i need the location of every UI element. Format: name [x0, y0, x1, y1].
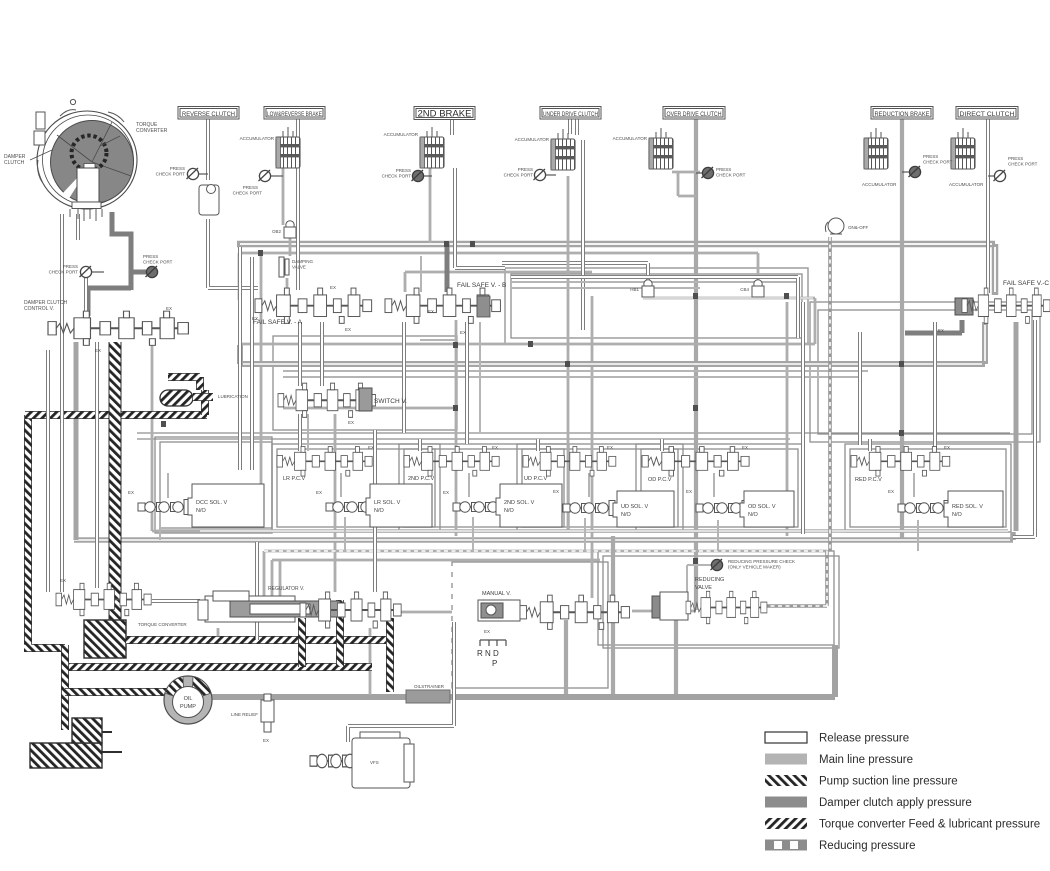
press check port P7 filled	[696, 167, 746, 179]
svg-text:R N D: R N D	[477, 649, 499, 658]
wire reduction brake line x902	[900, 119, 904, 540]
header REDUCTION BRAKE	[871, 107, 933, 120]
svg-text:UD SOL. V: UD SOL. V	[621, 504, 649, 510]
hatched oil pan	[30, 718, 122, 768]
valve FAIL SAFE V-A	[253, 288, 372, 326]
wire HB1-CB4 line y296	[592, 296, 815, 598]
svg-text:OB2: OB2	[272, 229, 282, 234]
enclosure box LR pair	[272, 444, 440, 532]
legend pump suction	[765, 775, 958, 788]
header DIRECT CLUTCH	[956, 107, 1018, 120]
enclosure box RED pair	[845, 444, 1011, 532]
wire white reverse clutch line	[208, 119, 258, 288]
wire bus y364	[240, 322, 985, 364]
label oilstrainer	[414, 684, 445, 689]
enclosure box manual valve region	[452, 562, 608, 688]
hatched suction x65	[61, 645, 69, 730]
svg-text:EX: EX	[348, 420, 354, 425]
svg-text:EX: EX	[742, 445, 748, 450]
legend torque converter feed	[765, 818, 1040, 831]
wire white direct clutch line	[986, 119, 990, 293]
svg-text:2ND P.C.V: 2ND P.C.V	[408, 476, 435, 482]
enclosure box right mid region	[810, 302, 1040, 442]
header 2ND BRAKE	[414, 107, 475, 120]
svg-text:EX: EX	[553, 489, 559, 494]
svg-text:MANUAL V.: MANUAL V.	[482, 591, 511, 597]
svg-text:REDUCING PRESSURE CHECK: REDUCING PRESSURE CHECK	[728, 559, 795, 564]
svg-text:OVER DRIVE CLUTCH: OVER DRIVE CLUTCH	[667, 111, 722, 118]
press check port P6	[504, 167, 556, 181]
valve OD PCV	[642, 447, 749, 483]
wire fail-safe B feeders	[405, 241, 592, 292]
svg-text:CHECK PORT: CHECK PORT	[923, 160, 953, 165]
wire gray below fail-safe B	[420, 322, 480, 433]
wire reducing bus y552	[264, 551, 827, 600]
check ball CB4	[740, 280, 764, 297]
svg-text:2ND BRAKE: 2ND BRAKE	[418, 109, 472, 120]
check ball HB1	[630, 280, 654, 297]
svg-text:EX: EX	[368, 445, 374, 450]
reverse clutch check loop	[199, 185, 219, 216]
feed hatched wide pipe x115	[109, 342, 122, 622]
accumulator OD	[613, 128, 673, 169]
svg-text:EX: EX	[252, 316, 258, 321]
svg-text:ACCUMULATOR: ACCUMULATOR	[240, 136, 275, 141]
svg-text:ACCUMULATOR: ACCUMULATOR	[949, 182, 984, 187]
svg-text:EX: EX	[607, 445, 613, 450]
svg-text:PRESS: PRESS	[1008, 156, 1023, 161]
svg-text:EX: EX	[345, 327, 351, 332]
svg-text:EX: EX	[128, 490, 134, 495]
svg-text:PRESS: PRESS	[170, 166, 185, 171]
press check port P4	[233, 170, 283, 196]
label damper control valve name	[24, 300, 67, 312]
svg-text:REDUCTION BRAKE: REDUCTION BRAKE	[875, 111, 931, 118]
svg-text:EX: EX	[95, 348, 101, 353]
svg-text:LOW&REVERSE BRAKE: LOW&REVERSE BRAKE	[267, 111, 322, 118]
svg-text:DAMPING: DAMPING	[292, 259, 314, 264]
hatched sump block	[84, 620, 126, 658]
wire manual valve bottom drop x566	[564, 620, 568, 695]
accumulator DIRECT	[949, 128, 984, 187]
svg-text:Torque converter Feed & lubric: Torque converter Feed & lubricant pressu…	[819, 819, 1040, 831]
svg-text:DCC SOL. V: DCC SOL. V	[196, 500, 228, 506]
check ball OB2	[272, 221, 296, 238]
wire UD clutch line x568	[567, 176, 570, 530]
wire DCC branch x261	[260, 253, 263, 484]
svg-text:EX: EX	[263, 738, 269, 743]
wire white UD pipes	[577, 119, 583, 330]
suction hatched pipe left vertical x28	[24, 415, 65, 648]
svg-text:OD P.C.V: OD P.C.V	[648, 477, 672, 483]
wire manual valve right drop x613	[611, 536, 615, 695]
solenoid OD	[686, 489, 794, 527]
hatched bus y640	[126, 636, 390, 644]
wire manual valve output	[632, 610, 696, 613]
EX labels scattered	[95, 285, 950, 450]
svg-text:FAIL SAFE V. - B: FAIL SAFE V. - B	[457, 282, 506, 289]
wire main line bus y244	[237, 244, 995, 295]
svg-text:EX: EX	[492, 445, 498, 450]
svg-text:HB1: HB1	[630, 287, 639, 292]
solenoid VFS	[310, 732, 414, 788]
valve RED PCV	[851, 447, 950, 483]
svg-text:EX: EX	[60, 578, 66, 583]
enclosure box switch region	[273, 336, 457, 430]
valve LR PCV	[277, 447, 372, 482]
wire switch valve drop x335	[334, 414, 337, 592]
svg-text:CONTROL V.: CONTROL V.	[24, 306, 54, 312]
hatched suction to pump y692	[65, 688, 167, 696]
valve FAIL SAFE V-C	[955, 280, 1050, 323]
label damper clutch	[4, 150, 52, 166]
svg-text:Release pressure: Release pressure	[819, 733, 909, 745]
valve SWITCH V	[278, 383, 407, 417]
wire y345 branch	[242, 341, 815, 347]
wire white left column x62	[48, 214, 97, 592]
svg-text:Main line pressure: Main line pressure	[819, 754, 913, 766]
wire white pipes below fail-safe B	[404, 277, 798, 444]
solenoid DCC	[128, 484, 264, 527]
wire switch valve line y408	[283, 407, 456, 410]
svg-text:RED SOL. V: RED SOL. V	[952, 504, 983, 510]
svg-text:CHECK PORT: CHECK PORT	[382, 174, 412, 179]
svg-text:LINE RELIEF: LINE RELIEF	[231, 712, 258, 717]
svg-text:VALVE: VALVE	[695, 585, 712, 591]
hatched bus y667	[65, 663, 372, 671]
svg-text:CHECK PORT: CHECK PORT	[233, 191, 263, 196]
solenoid RED	[888, 489, 1003, 527]
solenoid LR	[316, 484, 432, 527]
wire white 2nd brake pipes	[452, 119, 505, 268]
svg-text:EX: EX	[443, 490, 449, 495]
oil strainer on bus	[406, 690, 450, 703]
accumulator UD	[515, 129, 575, 170]
wire white tc-regulator link	[152, 542, 257, 640]
svg-text:REDUCING: REDUCING	[695, 577, 724, 583]
valve manual	[478, 591, 629, 634]
wire bus y536	[65, 532, 1013, 540]
press check port P3	[156, 166, 208, 180]
reducing pressure check port	[711, 559, 796, 571]
svg-text:EX: EX	[166, 306, 172, 311]
svg-text:CONVERTER: CONVERTER	[136, 128, 168, 134]
svg-text:CHECK PORT: CHECK PORT	[504, 173, 534, 178]
lubricant hatched pipe x205	[201, 390, 209, 415]
svg-text:ON&-OFF: ON&-OFF	[848, 225, 868, 230]
svg-text:EX: EX	[938, 328, 944, 333]
svg-text:VFS: VFS	[370, 760, 379, 765]
svg-text:PUMP: PUMP	[180, 704, 196, 710]
svg-text:UNDER DRIVE CLUTCH: UNDER DRIVE CLUTCH	[543, 111, 598, 118]
wire main line bus y253	[239, 253, 758, 300]
wire OD accumulator loop	[672, 172, 700, 196]
label torque converter small	[138, 622, 187, 627]
svg-text:N/O: N/O	[196, 508, 207, 514]
svg-text:ACCUMULATOR: ACCUMULATOR	[515, 137, 550, 142]
wire regulator feed y612	[400, 611, 452, 614]
svg-text:PRESS: PRESS	[243, 185, 258, 190]
svg-text:CHECK PORT: CHECK PORT	[156, 172, 186, 177]
svg-text:ACCUMULATOR: ACCUMULATOR	[862, 182, 897, 187]
svg-text:EX: EX	[316, 490, 322, 495]
wire enclosure-bottom gray rail y531	[160, 529, 1008, 533]
wire left vertical x105	[74, 342, 79, 540]
svg-text:LR SOL. V: LR SOL. V	[374, 500, 401, 506]
svg-text:ACCUMULATOR: ACCUMULATOR	[384, 132, 419, 137]
svg-text:N/O: N/O	[504, 508, 515, 514]
accumulator LR	[240, 127, 300, 168]
press check port P8 filled	[902, 154, 953, 178]
svg-text:UD P.C.V: UD P.C.V	[524, 476, 547, 482]
valve 2ND PCV	[404, 447, 499, 482]
wire white manual exhaust loop	[348, 622, 454, 742]
svg-text:SWITCH V.: SWITCH V.	[374, 398, 407, 405]
wire dark damper apply from converter	[88, 212, 146, 316]
accumulator 2ND	[384, 127, 444, 168]
wire white pipes x240 x252	[240, 247, 252, 470]
enclosure box UD pair	[517, 444, 683, 532]
wire LR PCV stub	[307, 414, 309, 451]
header LOW&REVERSE BRAKE	[264, 107, 325, 120]
legend damper clutch apply	[765, 797, 972, 810]
svg-text:PRESS: PRESS	[716, 167, 731, 172]
svg-text:RED P.C.V: RED P.C.V	[855, 477, 882, 483]
svg-text:DIRECT CLUTCH: DIRECT CLUTCH	[960, 111, 1015, 118]
valve torque converter control	[56, 578, 151, 616]
wire reducing valve drop x676	[674, 614, 678, 695]
hatched regulator drains	[302, 600, 390, 692]
damping valve	[279, 257, 314, 277]
wire dark fail-safe C link	[905, 320, 962, 333]
valve UD PCV	[523, 447, 616, 482]
svg-text:PRESS: PRESS	[396, 168, 411, 173]
svg-text:N/O: N/O	[952, 512, 963, 518]
wire 2nd brake accumulator feed	[429, 168, 432, 243]
svg-text:CHECK PORT: CHECK PORT	[716, 173, 746, 178]
header UNDER DRIVE CLUTCH	[540, 107, 601, 120]
legend reducing pressure	[765, 840, 916, 853]
svg-text:FAIL SAFE V.-C: FAIL SAFE V.-C	[1003, 280, 1049, 287]
wire white x375	[373, 430, 377, 592]
header OVER DRIVE CLUTCH	[663, 107, 725, 120]
svg-text:PRESS: PRESS	[923, 154, 938, 159]
wire pcv top stubs	[420, 439, 870, 451]
svg-text:TORQUE CONVERTER: TORQUE CONVERTER	[138, 622, 187, 627]
svg-text:PRESS: PRESS	[63, 264, 78, 269]
lubrication hatched oval	[160, 377, 213, 406]
svg-text:N/O: N/O	[748, 512, 759, 518]
on-off solenoid	[825, 218, 868, 234]
torque converter assembly	[34, 99, 137, 221]
wire reducing check link	[687, 565, 711, 592]
solenoid 2ND	[443, 484, 562, 527]
wire bus y544	[264, 551, 827, 600]
svg-text:Damper clutch apply pressure: Damper clutch apply pressure	[819, 797, 972, 809]
header REVERSE CLUTCH	[178, 107, 239, 120]
svg-text:EX: EX	[944, 445, 950, 450]
wire thin buses y371 y377	[283, 371, 868, 377]
svg-text:ACCUMULATOR: ACCUMULATOR	[613, 136, 648, 141]
svg-text:PRESS: PRESS	[518, 167, 533, 172]
legend release pressure	[765, 732, 909, 745]
svg-text:OIL: OIL	[184, 696, 193, 702]
wire regulator drops	[218, 628, 370, 695]
svg-text:EX: EX	[888, 489, 894, 494]
svg-text:EX: EX	[330, 285, 336, 290]
svg-text:CLUTCH: CLUTCH	[4, 160, 25, 166]
press check port P5 filled	[382, 168, 432, 182]
legend main line pressure	[765, 754, 913, 767]
valve regulator	[198, 586, 401, 628]
svg-text:EX: EX	[460, 330, 466, 335]
svg-text:VALVE: VALVE	[292, 265, 306, 270]
svg-text:2ND SOL. V: 2ND SOL. V	[504, 500, 535, 506]
solenoid UD	[553, 489, 674, 527]
wire thin line y262 to HB1	[502, 263, 648, 281]
wire main bottom bus y697	[210, 645, 835, 697]
svg-text:OILSTRAINER: OILSTRAINER	[414, 684, 445, 689]
svg-text:LR P.C.V: LR P.C.V	[283, 476, 306, 482]
svg-text:REGULATOR V.: REGULATOR V.	[268, 586, 304, 592]
svg-text:EX: EX	[428, 309, 434, 314]
valve reducing	[652, 577, 767, 624]
enclosure box OD pair	[636, 444, 803, 532]
accumulator RED	[862, 128, 897, 187]
wire sol supply stubs	[160, 516, 918, 551]
wire white right edge loop	[1013, 320, 1035, 537]
enclosure box 2ND pair	[399, 444, 569, 532]
wire reducing pressure vertical x830	[762, 237, 830, 606]
wire left vertical x152	[152, 342, 200, 531]
label torque converter	[100, 122, 168, 146]
svg-text:CB4: CB4	[740, 287, 749, 292]
svg-text:Pump suction line pressure: Pump suction line pressure	[819, 776, 958, 788]
svg-text:OD SOL. V: OD SOL. V	[748, 504, 776, 510]
press check port P2 filled	[143, 254, 173, 278]
wire fail-safe C drop x1016	[1014, 322, 1019, 531]
wire low-rev brake feed	[283, 168, 290, 293]
enclosure box reducing valve region	[598, 551, 839, 648]
wire dark 2nd brake drop	[445, 243, 450, 292]
svg-text:N/O: N/O	[374, 508, 385, 514]
oil pump	[164, 676, 212, 724]
press check port P1	[49, 264, 104, 278]
svg-text:REVERSE CLUTCH: REVERSE CLUTCH	[182, 111, 235, 118]
svg-text:CHECK PORT: CHECK PORT	[1008, 162, 1038, 167]
enclosure box fail-safe B region	[505, 268, 808, 344]
svg-text:P: P	[492, 659, 497, 668]
svg-text:EX: EX	[484, 629, 490, 634]
manual selector RNDP	[477, 640, 506, 668]
svg-text:EX: EX	[686, 489, 692, 494]
svg-text:CHECK PORT: CHECK PORT	[49, 270, 79, 275]
svg-text:LUBRICATION: LUBRICATION	[218, 394, 248, 399]
svg-text:(ONLY VEHICLE MAKER): (ONLY VEHICLE MAKER)	[728, 565, 781, 570]
wire thin rails above PCV row	[137, 433, 1010, 439]
wire fail-safe B drop x456	[455, 320, 458, 536]
lubricant hatched pipe y415	[25, 411, 207, 419]
wire white right column x803	[803, 302, 935, 534]
valve damper clutch control	[48, 311, 188, 345]
svg-text:FAIL SAFE V. - A: FAIL SAFE V. - A	[253, 319, 303, 326]
label lubrication	[218, 394, 248, 399]
valve line relief	[231, 694, 274, 743]
svg-text:N/O: N/O	[621, 512, 632, 518]
wire white UD header drop	[568, 119, 572, 134]
wire gray inside fail-safe B enclosure	[511, 282, 798, 288]
wire white fail-safe A drops	[300, 322, 322, 451]
svg-text:Reducing pressure: Reducing pressure	[819, 840, 916, 852]
wire pcv-sol links	[168, 473, 914, 498]
wire white low-rev brake pipes	[296, 119, 300, 290]
valve FAIL SAFE V-B	[385, 282, 506, 323]
wire OD clutch main line x696	[694, 119, 698, 610]
svg-text:PRESS: PRESS	[143, 254, 158, 259]
svg-text:CHECK PORT: CHECK PORT	[143, 260, 173, 265]
enclosure box DCC pair	[155, 437, 272, 533]
press check port P9	[988, 156, 1038, 182]
